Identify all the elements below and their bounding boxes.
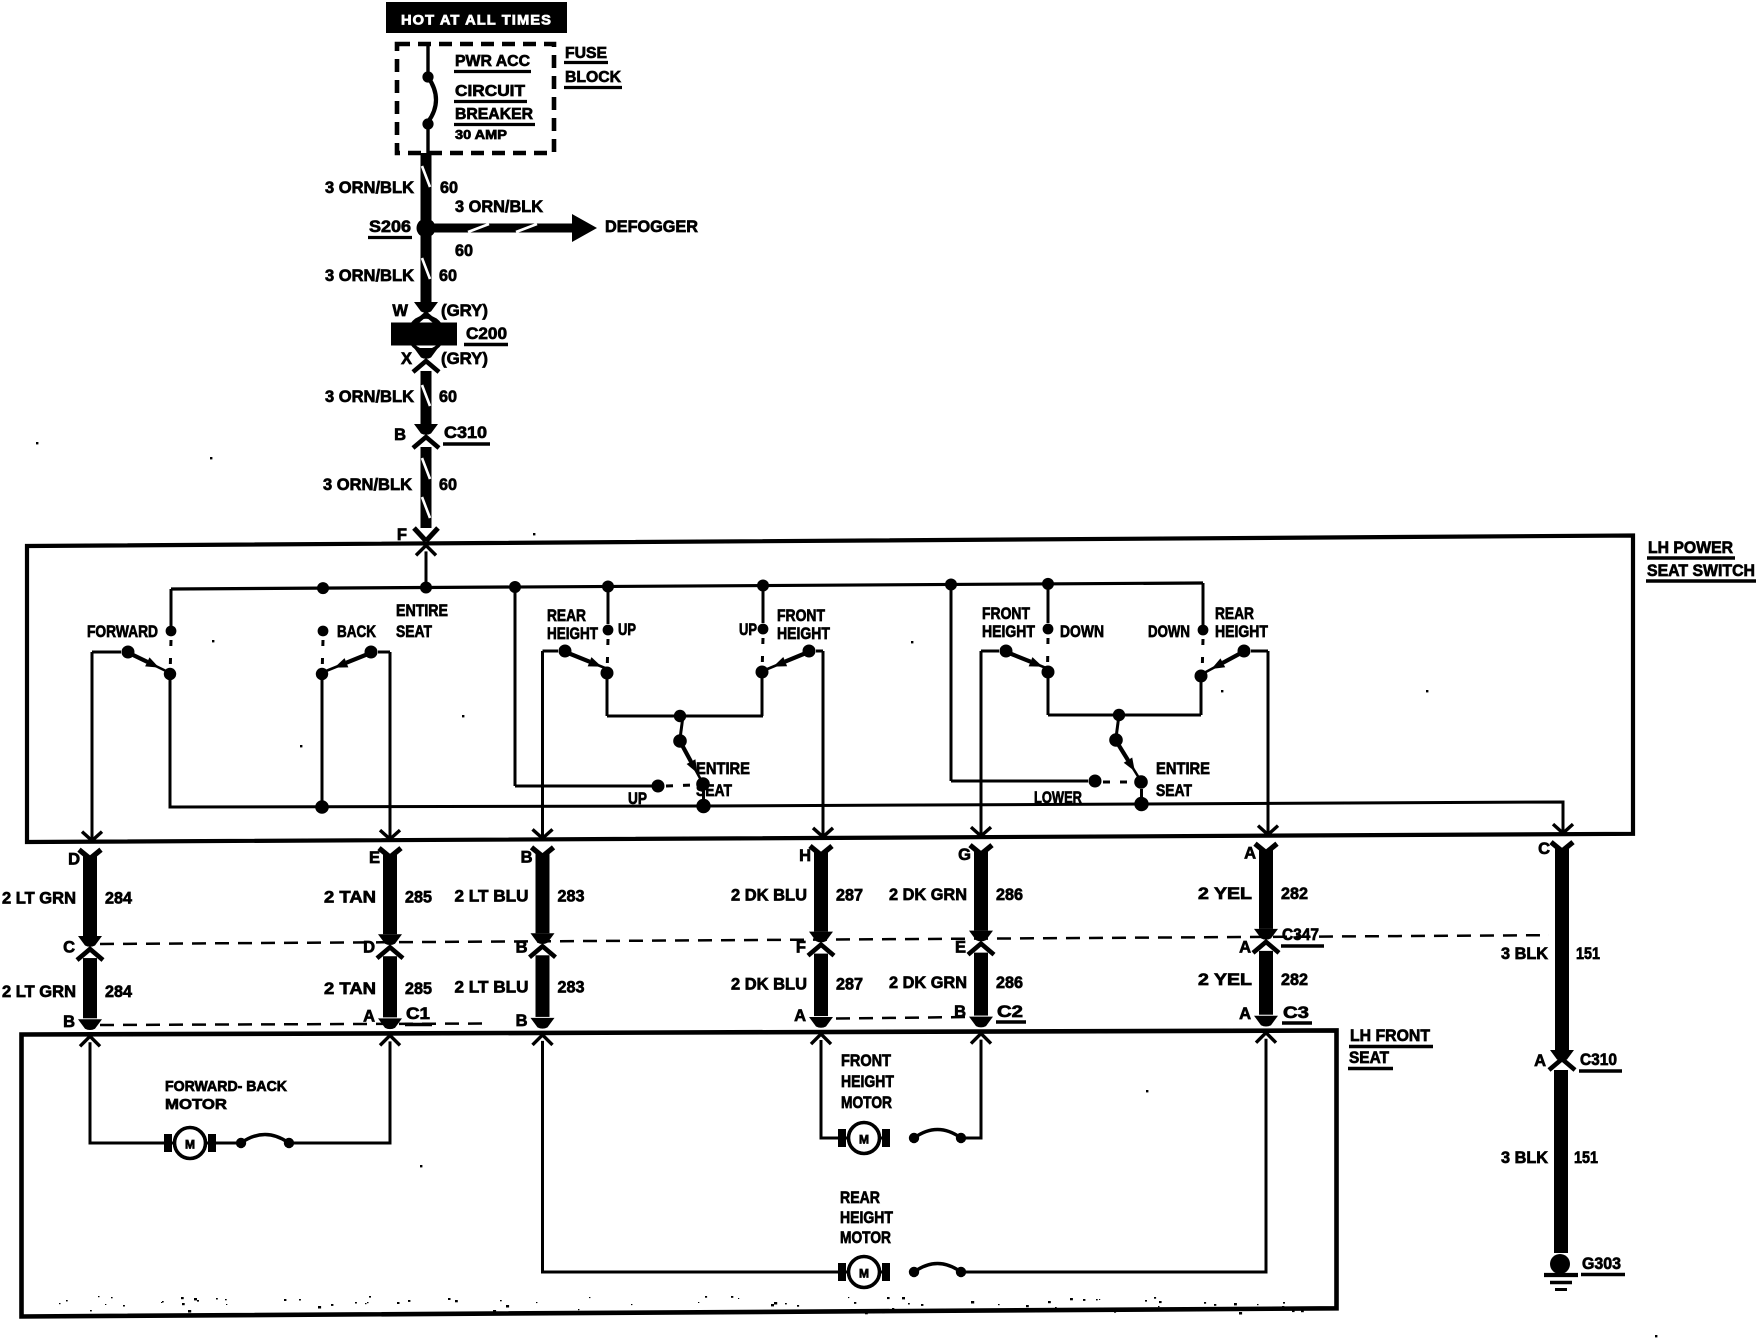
svg-text:3 ORN/BLK: 3 ORN/BLK (325, 179, 414, 197)
svg-text:2 DK BLU: 2 DK BLU (731, 976, 807, 994)
splice S206 (417, 219, 436, 238)
connector row-2 terminal A (1254, 1016, 1278, 1027)
connector row-2 terminal B (531, 1018, 555, 1029)
height sub-bus right (1047, 678, 1050, 715)
connector C310 terminal A (1550, 1050, 1574, 1061)
svg-text:C: C (63, 939, 75, 957)
connector C310 terminal B (414, 424, 438, 435)
common return wire to terminal C (170, 680, 1563, 832)
svg-text:FORWARD: FORWARD (87, 623, 158, 641)
svg-text:C200: C200 (466, 325, 507, 343)
svg-text:287: 287 (836, 976, 863, 994)
svg-text:284: 284 (105, 983, 133, 1001)
svg-text:283: 283 (558, 888, 585, 906)
svg-text:E: E (955, 939, 966, 957)
wire 2 YEL 282 segment 1 terminal A (1255, 844, 1266, 853)
circuit breaker PWR ACC 30A (426, 46, 429, 73)
wire 2 TAN 285 segment 2 terminal E (383, 956, 397, 1017)
svg-text:D: D (363, 939, 375, 957)
connector C347 terminal B (531, 933, 555, 944)
svg-text:HEIGHT: HEIGHT (841, 1073, 894, 1091)
wire terminal B to rear height motor (533, 1035, 553, 1045)
fuse block dashed box (397, 44, 554, 153)
svg-text:B: B (521, 848, 533, 866)
svg-text:C310: C310 (444, 424, 487, 442)
connector row-2 terminal A (378, 1018, 402, 1029)
svg-text:A: A (1244, 845, 1256, 863)
svg-text:60: 60 (439, 476, 457, 494)
svg-text:60: 60 (439, 267, 457, 285)
wire terminal D to forward-back motor (80, 1036, 100, 1046)
svg-text:REAR: REAR (840, 1189, 880, 1207)
wire 3 ORN/BLK 60 from S206 to C200 (421, 236, 432, 302)
svg-text:HEIGHT: HEIGHT (1215, 623, 1268, 641)
svg-text:SEAT: SEAT (1156, 782, 1192, 800)
svg-text:2 LT GRN: 2 LT GRN (2, 890, 76, 908)
svg-text:H: H (799, 847, 811, 865)
connector row-2 terminal B (969, 1017, 993, 1028)
height sub-bus left (606, 679, 609, 716)
svg-text:E: E (369, 849, 380, 867)
wire 2 DK BLU 287 segment 2 terminal H (814, 954, 828, 1016)
terminal F of seat switch (414, 528, 426, 541)
svg-text:2 YEL: 2 YEL (1198, 971, 1252, 989)
svg-text:282: 282 (1281, 885, 1308, 903)
switch ENTIRE SEAT UP (681, 716, 684, 735)
circuit breaker in rear height motor line (909, 1267, 919, 1277)
LH power seat switch box (27, 535, 1633, 842)
svg-text:C1: C1 (406, 1005, 430, 1023)
svg-text:286: 286 (996, 886, 1023, 904)
wire 2 LT GRN 284 segment 1 terminal D (79, 850, 90, 859)
wire from REAR HEIGHT DOWN contact to terminal A (1251, 650, 1268, 653)
svg-text:DEFOGGER: DEFOGGER (605, 218, 698, 236)
svg-text:(GRY): (GRY) (441, 302, 488, 320)
wire 2 YEL 282 segment 2 terminal A (1259, 951, 1273, 1015)
svg-text:A: A (1534, 1052, 1546, 1070)
svg-text:B: B (63, 1013, 75, 1031)
svg-text:B: B (394, 426, 406, 444)
wire rear height motor to terminal A (966, 1039, 1266, 1272)
wire terminal H to front height motor (811, 1034, 831, 1044)
svg-text:A: A (1239, 1005, 1251, 1023)
svg-text:2 TAN: 2 TAN (324, 980, 376, 998)
svg-text:LH FRONT: LH FRONT (1350, 1027, 1430, 1045)
wire from BACK contact to terminal E (378, 651, 390, 654)
svg-text:3 ORN/BLK: 3 ORN/BLK (323, 476, 412, 494)
svg-text:FRONT: FRONT (841, 1052, 891, 1070)
connector C347 terminal E (969, 931, 993, 942)
rear height motor M (838, 1263, 846, 1281)
svg-text:MOTOR: MOTOR (840, 1229, 891, 1247)
svg-text:REAR: REAR (547, 607, 586, 625)
svg-text:B: B (516, 1012, 528, 1030)
power label HOT AT ALL TIMES (386, 2, 567, 33)
feed wire to ENTIRE SEAT UP contact (514, 587, 517, 786)
svg-text:PWR ACC: PWR ACC (455, 53, 530, 70)
LH front seat box (22, 1030, 1337, 1316)
svg-text:UP: UP (739, 621, 757, 639)
wire 3 ORN/BLK 60 from C310 to switch terminal F (421, 447, 432, 528)
svg-text:LH POWER: LH POWER (1648, 539, 1733, 557)
wire 2 TAN 285 segment 1 terminal E (379, 848, 390, 857)
svg-text:HEIGHT: HEIGHT (547, 625, 598, 643)
svg-text:ENTIRE: ENTIRE (396, 602, 448, 620)
wire front height motor to terminal G (966, 1040, 981, 1138)
wire from FORWARD contact to terminal D (92, 651, 121, 654)
circuit breaker in forward-back motor line (214, 1142, 236, 1145)
svg-text:282: 282 (1281, 971, 1308, 989)
connector C347 terminal A (1254, 929, 1278, 940)
svg-text:SEAT: SEAT (1349, 1049, 1389, 1067)
connector row C1-C3 dashed line (100, 1024, 486, 1026)
svg-text:SEAT: SEAT (696, 782, 732, 800)
svg-text:C: C (1538, 840, 1550, 858)
svg-text:3 ORN/BLK: 3 ORN/BLK (325, 388, 414, 406)
hot bus wire (171, 583, 1203, 589)
svg-text:S206: S206 (369, 218, 411, 236)
svg-text:A: A (794, 1007, 806, 1025)
svg-text:60: 60 (455, 242, 473, 260)
svg-text:151: 151 (1576, 945, 1600, 963)
wire 2 DK GRN 286 segment 1 terminal G (970, 845, 981, 854)
svg-text:B: B (954, 1003, 966, 1021)
svg-text:3 ORN/BLK: 3 ORN/BLK (325, 267, 414, 285)
svg-text:ENTIRE: ENTIRE (696, 760, 750, 778)
svg-text:C347: C347 (1282, 926, 1319, 944)
svg-text:2 DK BLU: 2 DK BLU (731, 887, 807, 905)
connector C347 terminal C (78, 936, 102, 947)
svg-text:F: F (397, 526, 407, 544)
svg-text:HEIGHT: HEIGHT (777, 625, 830, 643)
svg-text:FRONT: FRONT (982, 605, 1030, 623)
wire 3 BLK 151 segment 1 (1551, 842, 1562, 851)
svg-text:287: 287 (836, 887, 863, 905)
wire 2 LT BLU 283 segment 1 terminal B (532, 847, 543, 856)
svg-text:286: 286 (996, 974, 1023, 992)
svg-text:30 AMP: 30 AMP (455, 128, 507, 142)
svg-text:DOWN: DOWN (1148, 623, 1190, 641)
svg-text:BREAKER: BREAKER (455, 106, 533, 123)
svg-text:X: X (401, 350, 412, 368)
feed wire to ENTIRE SEAT LOWER contact (950, 584, 953, 781)
svg-text:M: M (185, 1138, 195, 1152)
speckle noise scan artifacts (448, 1298, 451, 1300)
svg-text:M: M (859, 1267, 869, 1281)
svg-text:2 DK GRN: 2 DK GRN (889, 974, 967, 992)
svg-text:D: D (68, 851, 80, 869)
switch ENTIRE SEAT LOWER (1117, 715, 1120, 734)
connector C200 (409, 317, 443, 351)
forward-back motor M (164, 1134, 172, 1152)
svg-text:MOTOR: MOTOR (165, 1097, 228, 1113)
wire from FRONT HEIGHT UP contact to terminal H (816, 650, 823, 653)
wire 2 LT GRN 284 segment 2 terminal D (83, 958, 97, 1018)
svg-text:BLOCK: BLOCK (565, 69, 621, 86)
front height motor M (838, 1129, 846, 1147)
svg-text:G303: G303 (1582, 1255, 1621, 1273)
connector C200 terminal X (414, 348, 438, 359)
svg-text:3 ORN/BLK: 3 ORN/BLK (455, 198, 543, 216)
svg-text:MOTOR: MOTOR (841, 1094, 892, 1112)
svg-text:283: 283 (558, 978, 585, 996)
svg-text:CIRCUIT: CIRCUIT (455, 83, 525, 100)
wire forward-back motor to terminal E (294, 1041, 390, 1143)
svg-text:F: F (796, 939, 806, 957)
svg-text:ENTIRE: ENTIRE (1156, 760, 1210, 778)
svg-text:A: A (1239, 939, 1251, 957)
wire from F to hot bus (416, 545, 436, 555)
svg-text:2 YEL: 2 YEL (1198, 885, 1252, 903)
wire 3 ORN/BLK 60 from C200 to C310 (421, 371, 432, 424)
svg-text:FUSE: FUSE (565, 45, 607, 62)
svg-text:C2: C2 (997, 1003, 1023, 1021)
svg-text:2 LT BLU: 2 LT BLU (455, 978, 529, 996)
svg-text:3 BLK: 3 BLK (1501, 945, 1548, 963)
svg-text:60: 60 (440, 179, 458, 197)
svg-text:2 TAN: 2 TAN (324, 888, 376, 906)
svg-text:M: M (859, 1133, 869, 1147)
svg-text:285: 285 (405, 980, 432, 998)
svg-text:A: A (363, 1008, 375, 1026)
svg-text:SEAT: SEAT (396, 623, 432, 641)
wire 2 LT BLU 283 segment 2 terminal B (536, 955, 550, 1017)
svg-text:60: 60 (439, 388, 457, 406)
svg-text:2 DK GRN: 2 DK GRN (889, 886, 967, 904)
svg-text:FRONT: FRONT (777, 607, 825, 625)
svg-text:REAR: REAR (1215, 605, 1254, 623)
svg-text:(GRY): (GRY) (441, 350, 488, 368)
wire from FRONT HEIGHT DOWN contact to terminal G (981, 650, 999, 653)
svg-text:151: 151 (1574, 1149, 1598, 1167)
svg-text:2 LT GRN: 2 LT GRN (2, 983, 76, 1001)
svg-text:3 BLK: 3 BLK (1501, 1149, 1548, 1167)
connector row-2 terminal A (809, 1017, 833, 1028)
connector C347 terminal D (378, 934, 402, 945)
wire 2 DK GRN 286 segment 2 terminal G (974, 953, 988, 1016)
svg-text:UP: UP (618, 621, 636, 639)
connector C200 terminal W (414, 302, 438, 313)
svg-text:W: W (392, 302, 408, 320)
svg-text:SEAT SWITCH: SEAT SWITCH (1647, 562, 1755, 580)
wire 2 DK BLU 287 segment 1 terminal H (810, 846, 821, 855)
svg-text:HOT AT ALL TIMES: HOT AT ALL TIMES (401, 13, 552, 28)
svg-text:G: G (958, 846, 971, 864)
wire 3 BLK 151 segment 2 (1554, 1070, 1568, 1253)
connector C347 terminal F (809, 932, 833, 943)
svg-text:C3: C3 (1283, 1004, 1309, 1022)
bus junction nodes (317, 582, 329, 594)
wire 3 ORN/BLK 60 from breaker to S206 (421, 153, 432, 220)
circuit breaker in front height motor line (909, 1133, 919, 1143)
svg-text:BACK: BACK (337, 623, 376, 641)
svg-text:285: 285 (405, 888, 432, 906)
ground G303 (1550, 1254, 1570, 1274)
connector row C347 dashed line (100, 935, 1549, 944)
svg-text:HEIGHT: HEIGHT (982, 623, 1035, 641)
svg-text:FORWARD- BACK: FORWARD- BACK (165, 1079, 288, 1095)
svg-text:284: 284 (105, 890, 133, 908)
wire from REAR HEIGHT UP contact to terminal B (543, 650, 559, 653)
svg-text:HEIGHT: HEIGHT (840, 1209, 893, 1227)
svg-text:2 LT BLU: 2 LT BLU (455, 888, 529, 906)
wire 3 ORN/BLK 60 to defogger (434, 224, 572, 233)
svg-text:C310: C310 (1580, 1051, 1617, 1069)
svg-text:DOWN: DOWN (1060, 623, 1104, 641)
svg-text:B: B (516, 939, 528, 957)
connector row-2 terminal B (78, 1019, 102, 1030)
